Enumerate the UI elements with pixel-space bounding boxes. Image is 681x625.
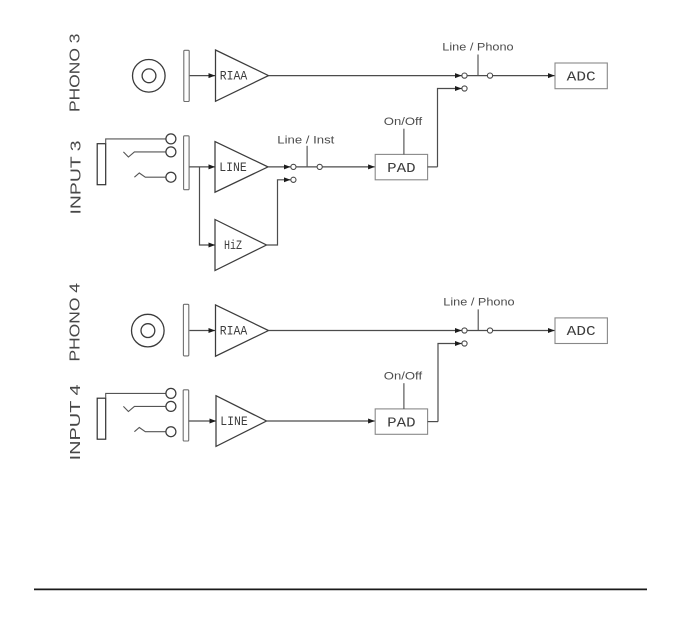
- RCA connector J-PH3: [133, 60, 166, 93]
- svg-text:INPUT 3: INPUT 3: [67, 141, 84, 215]
- jack connector J-IN3 sleeve body: [97, 144, 106, 185]
- jack sleeve terminal circle 4: [166, 427, 176, 437]
- switch SW-IN3 Line/Inst throw a: [291, 164, 296, 169]
- wire bar to LINE amp 4: [189, 420, 216, 422]
- footer rule: [34, 588, 647, 590]
- connector panel bar IN4: [183, 390, 189, 441]
- wire RIAA out to Line/Phono switch pole a: [269, 75, 462, 77]
- ADC U-ADC4 box: [555, 318, 607, 344]
- svg-text:RIAA: RIAA: [220, 69, 248, 84]
- wire bar to LINE amp: [189, 166, 215, 168]
- jack tip contact wire: [106, 139, 166, 144]
- On/Off tick to PAD4: [403, 383, 405, 409]
- svg-text:PAD: PAD: [387, 415, 416, 431]
- PAD3 box: [375, 154, 427, 179]
- connector panel bar PH4: [183, 304, 188, 356]
- wire PAD3 out up to switch throw b: [438, 89, 462, 167]
- svg-text:RIAA: RIAA: [220, 323, 248, 338]
- svg-text:PHONO 3: PHONO 3: [67, 34, 84, 113]
- wire between SW-IN3 throw a and common: [296, 166, 318, 168]
- wire PAD4 output stub: [428, 421, 438, 423]
- switch SW-PH3 common: [487, 73, 492, 78]
- wire between SW-PH3 throw a and common: [467, 75, 488, 77]
- svg-text:On/Off: On/Off: [384, 370, 423, 382]
- svg-text:ADC: ADC: [567, 69, 596, 85]
- op-amp LINE (input 4): [216, 396, 267, 447]
- PAD4 box: [375, 409, 427, 434]
- wire RIAA4 out to Line/Phono switch 4: [269, 330, 462, 332]
- switch SW-PH3 Line/Phono throw a: [462, 73, 467, 78]
- jack sleeve terminal circle: [166, 172, 176, 182]
- switch SW-PH4 throw a: [462, 328, 467, 333]
- wire branch junction down to HiZ amp: [200, 167, 216, 245]
- jack ring terminal circle 4: [166, 401, 176, 411]
- jack ring terminal circle: [166, 147, 176, 157]
- op-amp RIAA (phono 4 preamp): [216, 305, 269, 356]
- connector panel bar PH3: [184, 50, 189, 101]
- svg-text:LINE: LINE: [219, 160, 247, 175]
- wire bar to RIAA amp 4: [189, 330, 215, 332]
- svg-text:PAD: PAD: [387, 161, 416, 177]
- jack sleeve contact wire with kink: [134, 173, 166, 177]
- jack ring contact wire with normalling kink: [123, 152, 165, 157]
- RCA connector J-PH4: [132, 314, 165, 347]
- wire switch common to ADC1: [492, 75, 554, 77]
- switch SW-IN3 lever tick: [306, 146, 308, 167]
- jack tip terminal circle: [166, 134, 176, 144]
- wire switch4 common to ADC4: [492, 330, 554, 332]
- wire bar to RIAA amp: [190, 75, 215, 77]
- On/Off tick to PAD3: [403, 129, 405, 155]
- switch SW-IN3 throw b: [291, 177, 296, 182]
- jack connector J-IN4 sleeve body: [97, 398, 106, 439]
- switch SW-PH3 throw b (from PAD3): [462, 86, 467, 91]
- svg-text:PHONO 4: PHONO 4: [67, 283, 84, 362]
- wire LINE out to Line/Inst switch throw a: [268, 166, 290, 168]
- svg-text:LINE: LINE: [220, 414, 248, 429]
- wire PAD3 output stub: [428, 166, 438, 168]
- jack sleeve contact wire with kink 4: [134, 428, 166, 432]
- wire switch common to PAD3: [322, 166, 375, 168]
- jack tip contact wire 4: [106, 393, 166, 398]
- wire between SW-PH4 throw a and common: [467, 330, 488, 332]
- switch SW-IN3 common: [317, 164, 322, 169]
- switch SW-PH4 throw b: [462, 341, 467, 346]
- wire HiZ out up to Line/Inst throw b: [267, 180, 291, 245]
- svg-text:Line / Phono: Line / Phono: [443, 296, 514, 308]
- jack ring contact wire with kink 4: [123, 406, 165, 411]
- switch SW-PH4 common: [487, 328, 492, 333]
- switch SW-PH3 lever tick: [477, 55, 479, 76]
- svg-text:Line / Inst: Line / Inst: [277, 135, 334, 147]
- connector panel bar IN3: [184, 136, 190, 190]
- ADC U-ADC3 box: [555, 63, 607, 89]
- wire LINE4 out to PAD4: [267, 420, 375, 422]
- svg-text:On/Off: On/Off: [384, 116, 423, 128]
- switch SW-PH4 lever tick: [477, 309, 479, 330]
- jack tip terminal circle 4: [166, 388, 176, 398]
- op-amp HiZ (input 3 instrument): [215, 220, 267, 271]
- svg-text:ADC: ADC: [567, 324, 596, 340]
- wire PAD4 out up to switch throw b: [438, 344, 462, 422]
- op-amp LINE (input 3): [215, 142, 268, 193]
- svg-text:Line / Phono: Line / Phono: [442, 41, 513, 53]
- svg-text:HiZ: HiZ: [224, 238, 242, 253]
- op-amp RIAA (phono 3 preamp): [216, 50, 269, 101]
- svg-text:INPUT 4: INPUT 4: [67, 384, 84, 460]
